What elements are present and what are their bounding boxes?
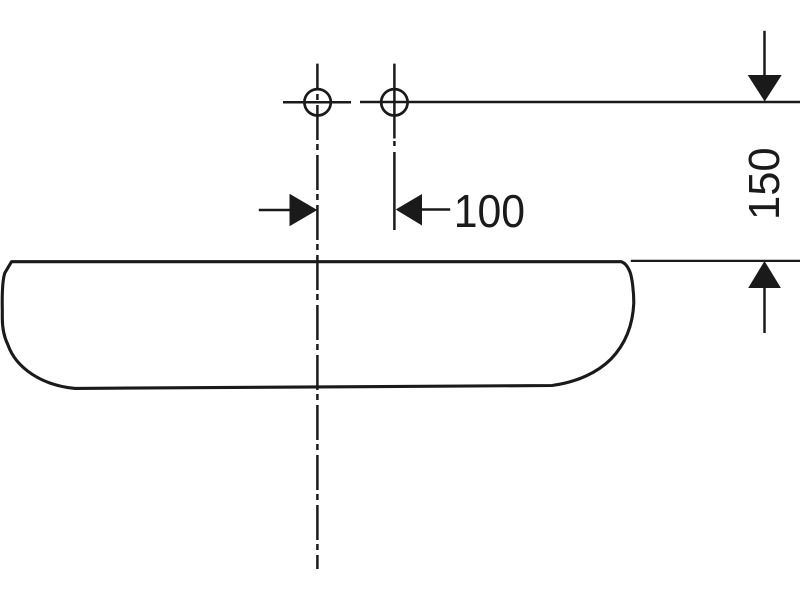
svg-text:100: 100 [454, 187, 525, 238]
svg-text:150: 150 [741, 147, 789, 220]
